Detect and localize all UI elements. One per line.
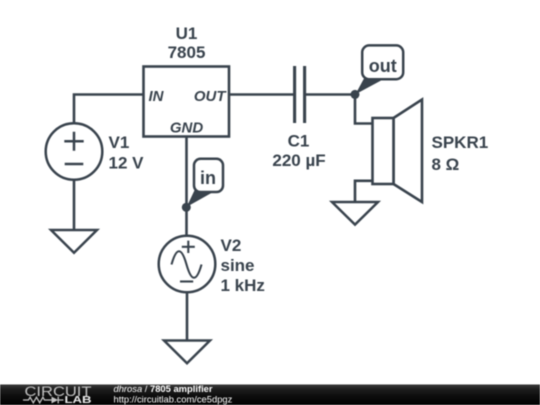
ground (SPKR1) (332, 202, 378, 225)
ground (V2) (164, 341, 210, 364)
net label in (187, 159, 223, 207)
svg-text:out: out (369, 56, 397, 76)
capacitor C1 (295, 66, 305, 123)
svg-text:in: in (200, 168, 216, 188)
svg-text:SPKR1: SPKR1 (432, 133, 489, 152)
svg-text:OUT: OUT (194, 88, 228, 105)
IC U1 7805 body (144, 67, 230, 137)
svg-text:LAB: LAB (65, 395, 92, 405)
wire node out to speaker top terminal (355, 95, 373, 124)
wire speaker bottom terminal to ground (355, 181, 373, 202)
voltage source V1 (46, 123, 103, 180)
svg-text:220 µF: 220 µF (272, 151, 325, 170)
node in junction (182, 203, 191, 212)
wire U1 OUT to C1 (229, 93, 294, 96)
label C1 220 uF (272, 132, 325, 171)
svg-text:U1: U1 (176, 24, 198, 43)
label V2 sine 1 kHz (221, 236, 265, 295)
svg-text:GND: GND (170, 120, 204, 137)
svg-text:sine: sine (221, 256, 255, 275)
speaker SPKR1 (373, 100, 423, 203)
svg-text:C1: C1 (288, 132, 310, 151)
svg-text:12 V: 12 V (109, 154, 145, 173)
footer bar (0, 385, 540, 405)
svg-text:V2: V2 (221, 236, 242, 255)
svg-text:7805: 7805 (168, 43, 206, 62)
wire U1 GND to V2 (185, 137, 188, 237)
wire V1 bottom to ground (73, 180, 76, 230)
svg-text:V1: V1 (109, 133, 130, 152)
label SPKR1 8 ohm (432, 133, 489, 174)
svg-text:http://circuitlab.com/ce5dpgz: http://circuitlab.com/ce5dpgz (114, 393, 233, 404)
ground (V1) (51, 230, 97, 253)
label V1 12 V (109, 133, 145, 172)
wire V1 top to U1 IN pin (74, 95, 144, 124)
label U1 7805 (168, 24, 206, 62)
net label out (356, 45, 404, 94)
CircuitLab logo resistor-diode glyph (23, 397, 52, 403)
svg-text:1 kHz: 1 kHz (221, 276, 265, 295)
voltage source V2 (159, 236, 216, 293)
wire C1 to node out (305, 93, 355, 96)
node out junction (351, 90, 360, 99)
svg-text:IN: IN (149, 88, 165, 105)
wire V2 bottom to ground (186, 292, 189, 340)
svg-text:8 Ω: 8 Ω (432, 155, 460, 174)
